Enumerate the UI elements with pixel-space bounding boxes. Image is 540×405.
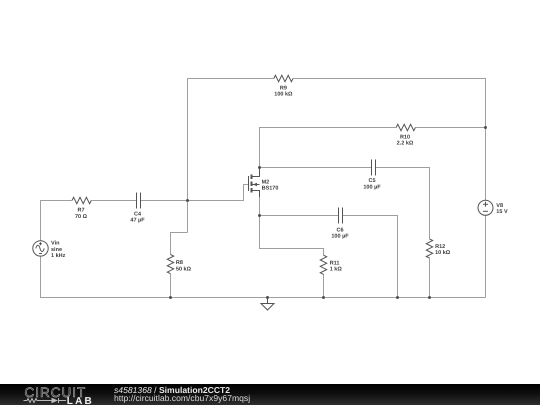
wire Vin bottom rail: [41, 256, 486, 297]
ground: [261, 298, 274, 311]
svg-text:R12: R12: [435, 244, 445, 250]
footer bar: [0, 384, 540, 405]
svg-text:47 µF: 47 µF: [130, 218, 145, 224]
svg-text:R9: R9: [280, 86, 287, 92]
svg-text:Vin: Vin: [51, 241, 60, 247]
svg-text:15 V: 15 V: [496, 209, 508, 215]
svg-text:1 kΩ: 1 kΩ: [330, 267, 343, 273]
wire C6 left: [260, 215, 339, 217]
svg-text:100 µF: 100 µF: [331, 233, 349, 239]
capacitor C5: [372, 160, 376, 176]
wire step to R8: [171, 233, 188, 255]
resistor R10: [396, 124, 415, 130]
wire C4 to gate: [141, 185, 249, 201]
wire R7 to C4: [91, 200, 136, 202]
wire R11 bottom: [323, 274, 325, 297]
wire R8 bottom: [170, 274, 172, 298]
svg-text:50 kΩ: 50 kΩ: [176, 266, 192, 272]
svg-text:C6: C6: [336, 227, 343, 233]
resistor R9: [274, 75, 293, 81]
svg-text:LAB: LAB: [67, 396, 94, 405]
resistor R7: [72, 197, 91, 203]
svg-text:100 µF: 100 µF: [363, 185, 381, 191]
transistor M2: [249, 168, 260, 198]
voltage source Vin: [33, 241, 48, 256]
wire top rail left: [188, 79, 274, 233]
wire source to R11: [260, 197, 324, 255]
svg-text:M2: M2: [262, 179, 270, 185]
svg-text:R11: R11: [330, 261, 340, 267]
resistor R12: [426, 239, 432, 258]
resistor R11: [320, 255, 326, 274]
wire Vin to R7: [41, 201, 73, 241]
svg-text:R7: R7: [77, 207, 84, 213]
wire V8 bottom: [485, 215, 487, 297]
wire R10 rail right: [415, 127, 485, 129]
wire C5 left: [260, 167, 372, 169]
capacitor C4: [137, 193, 141, 209]
node junction dots: [169, 126, 487, 299]
voltage source V8: [478, 200, 493, 215]
wire top rail right: [293, 79, 486, 201]
wire R10 rail left: [260, 128, 397, 168]
wire R12 bottom: [429, 258, 431, 297]
svg-text:R10: R10: [400, 135, 410, 141]
svg-text:R8: R8: [176, 260, 183, 266]
resistor R8: [167, 255, 173, 274]
svg-text:BS170: BS170: [262, 185, 279, 191]
svg-text:1 kHz: 1 kHz: [51, 253, 66, 259]
CircuitLab logo: [0, 384, 100, 405]
wire C5 right down to R12: [376, 168, 430, 239]
svg-text:2.2 kΩ: 2.2 kΩ: [397, 141, 414, 147]
svg-text:70 Ω: 70 Ω: [75, 214, 88, 220]
svg-text:100 kΩ: 100 kΩ: [274, 92, 293, 98]
svg-text:C5: C5: [368, 178, 375, 184]
capacitor C6: [339, 208, 343, 224]
wire C6 right down: [343, 216, 398, 298]
svg-text:C4: C4: [134, 212, 142, 218]
svg-text:10 kΩ: 10 kΩ: [435, 250, 451, 256]
svg-text:sine: sine: [51, 247, 62, 253]
